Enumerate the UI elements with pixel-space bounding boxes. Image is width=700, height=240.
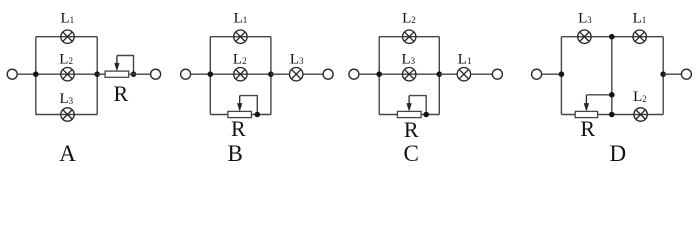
svg-text:A: A [59, 141, 76, 166]
circuit D: wire right rail to right terminal [663, 73, 681, 75]
circuit A: junction node rheostat output [131, 71, 137, 77]
svg-text:L3: L3 [60, 91, 74, 107]
circuit A: lamp L2 [61, 68, 74, 81]
circuit A: wire middle branch [36, 73, 97, 75]
circuit C: wire left rail [378, 37, 380, 115]
circuit C: lamp L1 [457, 68, 470, 81]
circuit A: wire top branch [36, 36, 97, 38]
circuit A: wire wiper to output node [117, 56, 134, 75]
circuit B: rheostat R body [228, 111, 252, 117]
circuit D: lamp L1 [633, 30, 646, 43]
svg-text:L3: L3 [402, 51, 416, 67]
svg-text:L3: L3 [290, 51, 304, 67]
circuit B: lamp L3 [290, 68, 303, 81]
svg-text:L1: L1 [458, 51, 472, 67]
circuit C: rheostat R wiper arrow [407, 96, 412, 111]
circuit A: lamp L3 [61, 108, 74, 121]
circuit D: junction node wiper tap [609, 92, 615, 98]
circuit B: lamp L2 [234, 68, 247, 81]
svg-text:L1: L1 [234, 10, 248, 26]
circuit B: left terminal [181, 69, 191, 79]
circuit B: wire left terminal to left rail [191, 73, 211, 75]
circuit C: wire right rail [438, 37, 440, 115]
circuit A: lamp L1 [61, 30, 74, 43]
circuit A: rheostat R body [105, 71, 129, 77]
circuit D: rheostat R wiper arrow [584, 95, 589, 111]
circuit B: wire right rail [270, 37, 272, 115]
circuit C: right terminal [492, 69, 502, 79]
circuit A: junction node right [94, 71, 100, 77]
circuit C: wire top branch [379, 36, 439, 38]
circuit A: wire left terminal to left rail [17, 73, 35, 75]
circuit A: wire rheostat to right terminal [129, 73, 151, 75]
svg-text:B: B [228, 141, 243, 166]
svg-text:D: D [609, 141, 626, 166]
svg-text:L3: L3 [578, 10, 592, 26]
circuit C: wire left terminal to left rail [359, 73, 379, 75]
circuit D: wire left terminal to left rail [542, 73, 562, 75]
circuit B: wire left rail [209, 37, 211, 115]
circuit B: junction node left [208, 71, 214, 77]
circuit B: wire lamp L3 to right terminal [303, 73, 323, 75]
circuit C: wire lamp L1 to right terminal [471, 73, 493, 75]
circuit C: lamp L3 [403, 68, 416, 81]
circuit B: junction node rheostat output [254, 112, 260, 118]
svg-text:C: C [404, 141, 419, 166]
circuit C: wire bottom branch left [379, 114, 397, 116]
circuit D: wire wiper to middle vertical [586, 94, 611, 96]
circuit A: wire left rail [35, 37, 37, 115]
circuit D: wire middle vertical [611, 37, 613, 115]
circuit B: wire middle branch [210, 73, 271, 75]
svg-text:R: R [404, 117, 419, 142]
circuit D: right terminal [681, 69, 691, 79]
circuit D: wire left rail [560, 37, 562, 115]
circuit A: left terminal [7, 69, 17, 79]
svg-text:L2: L2 [633, 89, 647, 105]
circuit A: rheostat R wiper arrow [115, 56, 120, 71]
circuit A: wire right rail [96, 37, 98, 115]
circuit A: wire right rail to rheostat [97, 73, 105, 75]
circuit C: junction node rheostat output [423, 112, 429, 118]
circuit B: wire bottom branch right [251, 114, 271, 116]
circuit B: wire right rail to lamp L3 [271, 73, 290, 75]
circuit C: lamp L2 [403, 30, 416, 43]
svg-text:L2: L2 [59, 51, 73, 67]
circuit B: right terminal [323, 69, 333, 79]
circuit A: right terminal [151, 69, 161, 79]
circuit C: wire wiper to bottom node [409, 96, 426, 115]
circuit B: junction node right [268, 71, 274, 77]
circuit B: wire top branch [210, 36, 271, 38]
circuit B: rheostat R wiper arrow [237, 96, 242, 111]
circuit B: wire bottom branch left [210, 114, 228, 116]
circuit D: wire top branch [561, 36, 663, 38]
svg-text:R: R [231, 116, 246, 141]
circuit A: wire bottom branch [36, 114, 97, 116]
svg-text:L2: L2 [402, 10, 416, 26]
circuit A: junction node left [33, 71, 39, 77]
circuit B: lamp L1 [234, 30, 247, 43]
circuit D: junction node top middle [609, 34, 615, 40]
circuit D: rheostat R body [575, 111, 597, 117]
circuit B: wire wiper to bottom node [240, 96, 258, 115]
circuit D: wire bottom branch [561, 114, 663, 116]
circuit D: wire right rail [662, 37, 664, 115]
circuit D: junction node right rail [660, 71, 666, 77]
svg-text:L1: L1 [633, 10, 647, 26]
svg-text:R: R [114, 81, 129, 106]
circuit C: junction node right [437, 71, 443, 77]
circuit C: junction node left [376, 71, 382, 77]
circuit C: rheostat R body [397, 111, 421, 117]
svg-text:L2: L2 [233, 51, 247, 67]
circuit C: left terminal [349, 69, 359, 79]
circuit D: left terminal [532, 69, 542, 79]
circuit D: lamp L3 [578, 30, 591, 43]
circuit D: lamp L2 [634, 108, 647, 121]
svg-text:L1: L1 [61, 10, 75, 26]
circuit D: junction node bottom middle [609, 112, 615, 118]
circuit D: junction node left rail [559, 71, 565, 77]
svg-text:R: R [580, 116, 595, 141]
circuit C: wire bottom branch right [421, 114, 439, 116]
circuit C: wire middle branch [379, 73, 439, 75]
circuit C: wire right rail to lamp L1 [439, 73, 457, 75]
